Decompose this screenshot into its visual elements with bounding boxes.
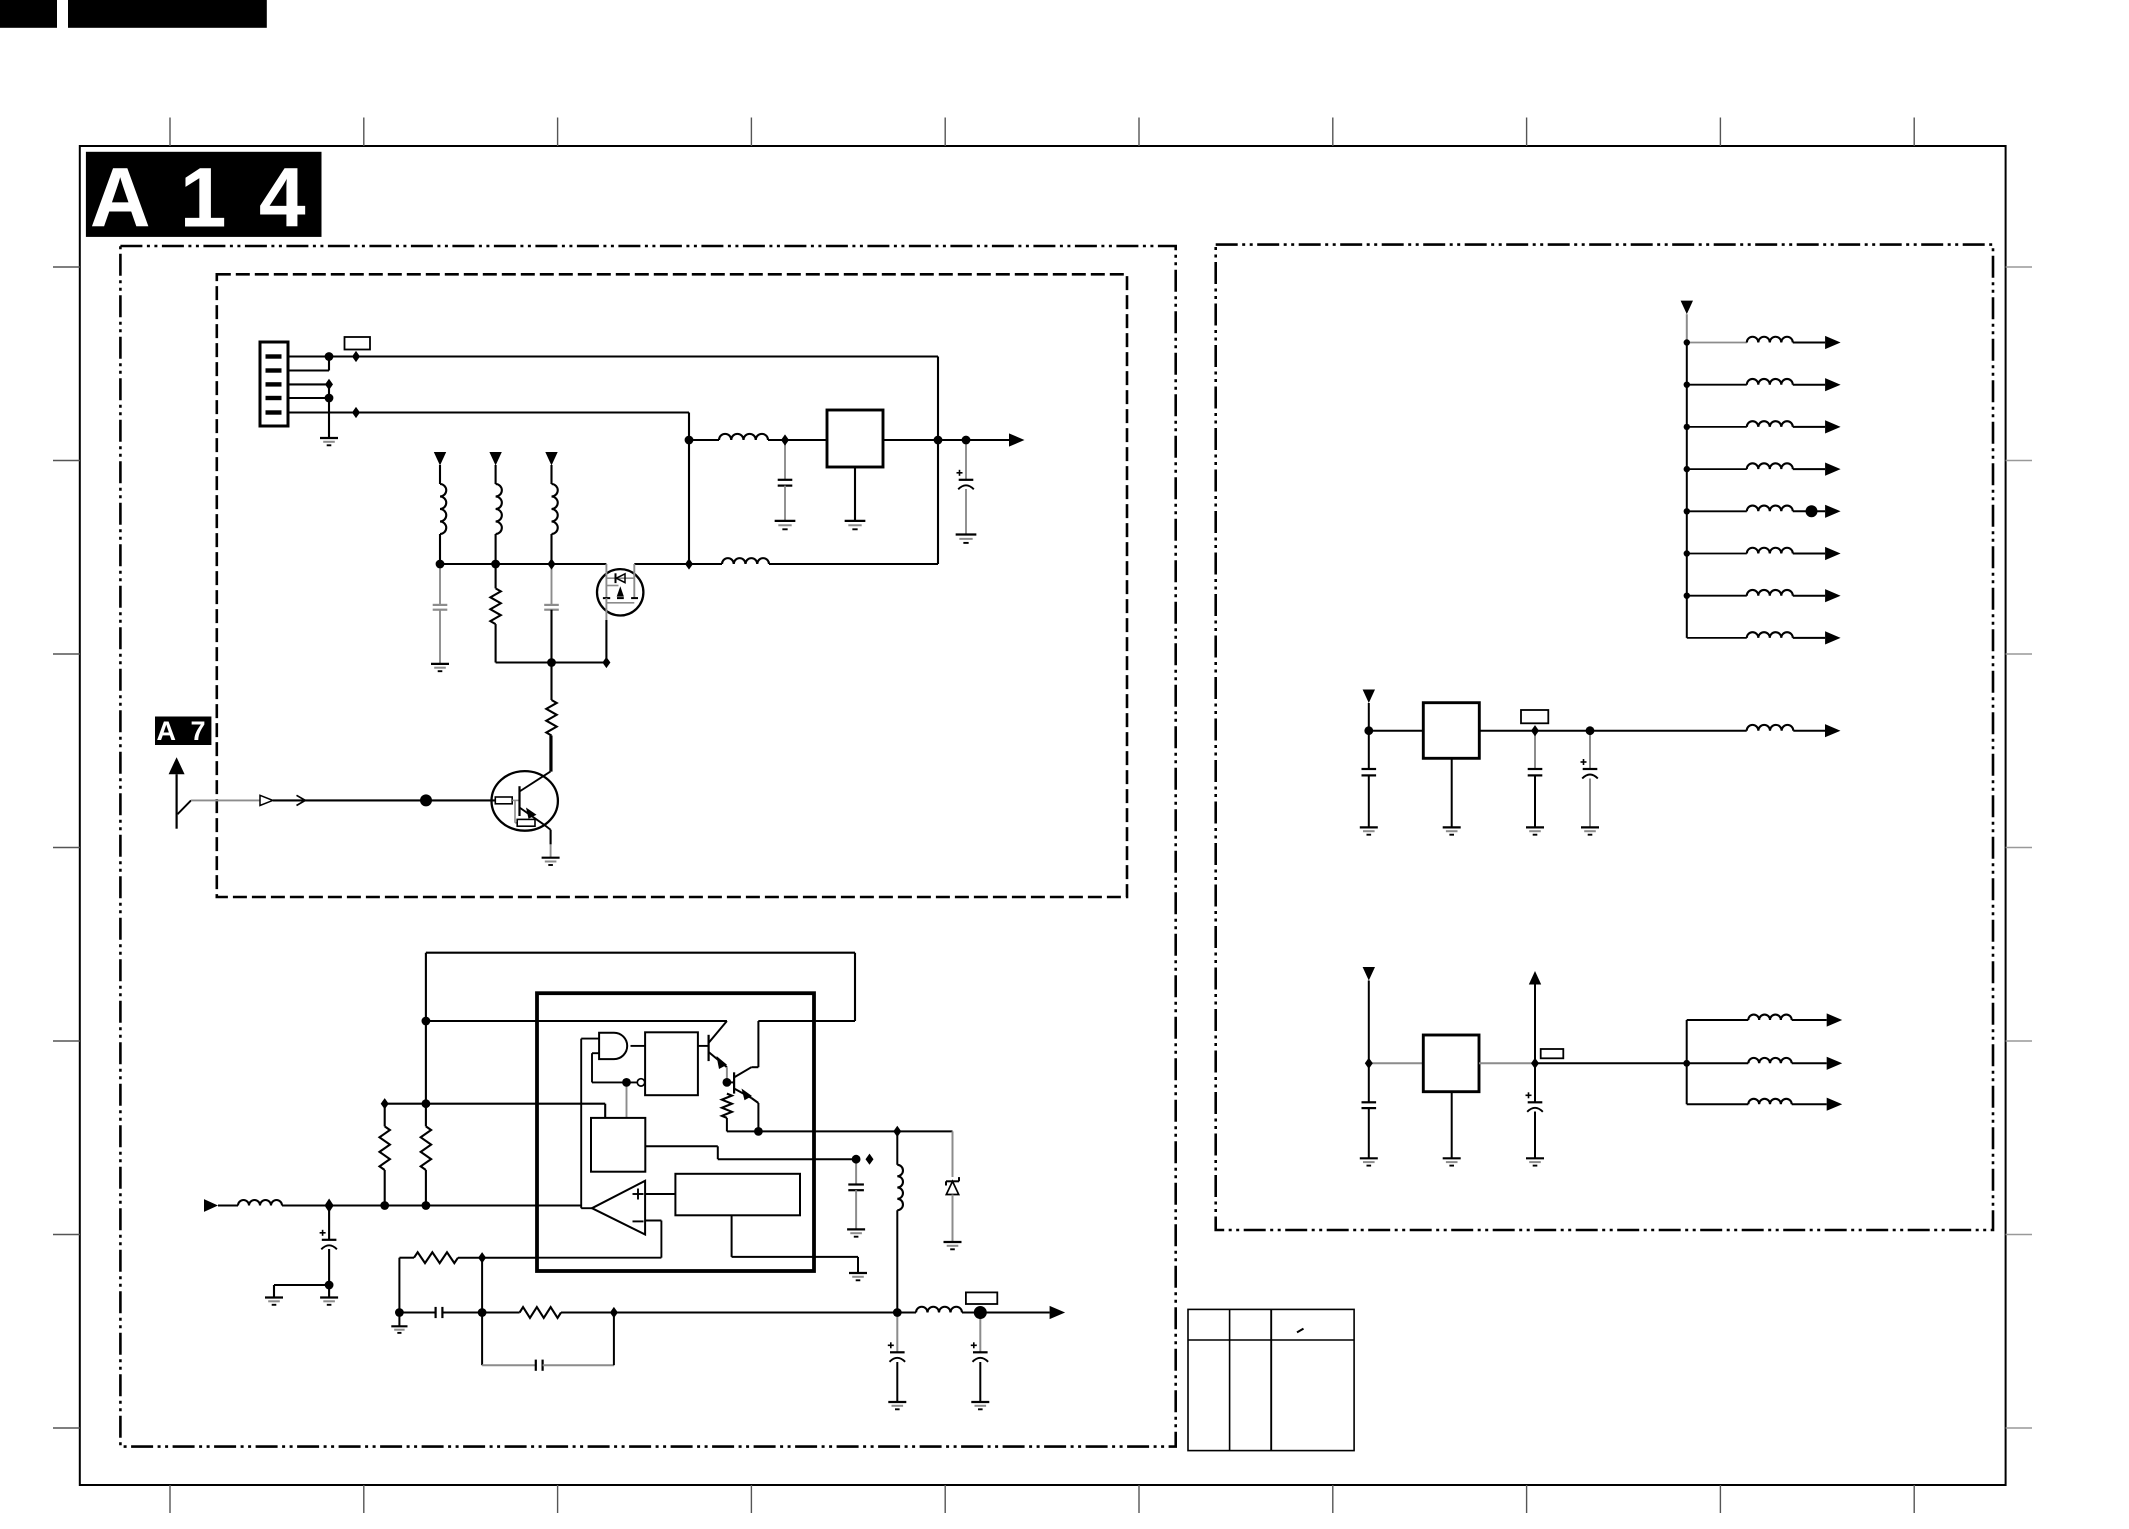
- capacitor C10 polarized: [971, 1342, 988, 1362]
- junction dot fb mid: [478, 1308, 487, 1317]
- wire AND in1: [581, 1038, 599, 1040]
- inductor L13 branch: [1684, 547, 1841, 560]
- diamond node pin3: [325, 379, 333, 390]
- junction dot regulator input: [685, 436, 694, 445]
- arrow supply down: [1681, 301, 1693, 315]
- wire U2c out: [645, 1146, 856, 1159]
- wire inverter net: [592, 1053, 637, 1082]
- diamond node U4 in: [1365, 1058, 1373, 1069]
- slash A7: [178, 800, 192, 814]
- junction dot bus b: [491, 560, 500, 569]
- op-amp U2d: [592, 1181, 645, 1235]
- wire return left: [689, 563, 722, 565]
- junction dot output L: [893, 1308, 902, 1317]
- junction dot R4 tap: [422, 1099, 431, 1108]
- junction dot base node: [420, 794, 432, 806]
- ground feedback: [391, 1326, 407, 1333]
- wire U4 in drop: [1368, 981, 1370, 1064]
- wire MOSFET to diamond: [634, 563, 689, 565]
- right block dash-dot border: [1216, 245, 1993, 1230]
- wire output line: [614, 1312, 916, 1314]
- wire R1 top: [495, 564, 497, 588]
- inductor L3: [440, 484, 446, 534]
- ground C2: [956, 535, 977, 543]
- svg-text:A 7: A 7: [156, 716, 209, 746]
- diamond node fb out: [610, 1307, 618, 1318]
- inductor L7: [897, 1165, 903, 1210]
- wire rail out: [758, 1020, 855, 1022]
- diamond node R3 top: [381, 1098, 389, 1109]
- wire L16 out: [1793, 730, 1825, 732]
- arrow U3 input down: [1363, 690, 1375, 704]
- wire fb gnd stub: [398, 1313, 400, 1327]
- junction dot pin4: [325, 394, 334, 403]
- regulator U3: [1423, 703, 1479, 759]
- wire U3 output: [1479, 730, 1746, 732]
- svg-text:A 1 4: A 1 4: [90, 151, 310, 245]
- arrow output main: [1050, 1306, 1066, 1319]
- wire C15 gnd: [1534, 1112, 1536, 1159]
- wire C9 gnd: [896, 1362, 898, 1402]
- wire gnd link down: [273, 1285, 275, 1298]
- wire C8 right: [543, 1313, 614, 1366]
- junction dot R4 bottom: [422, 1201, 431, 1210]
- ground input left: [265, 1298, 283, 1305]
- arrow A7 up: [169, 757, 185, 829]
- IC U2 box: [537, 993, 814, 1271]
- wire C2 to ground: [965, 489, 967, 535]
- wire R3 to input: [384, 1170, 386, 1206]
- junction dot fb left: [395, 1308, 404, 1317]
- revision table: [1188, 1309, 1354, 1450]
- wire R7 right: [561, 1312, 614, 1314]
- junction dot U4 branches: [1683, 1060, 1690, 1067]
- transistor Q3 internal: [709, 1021, 727, 1069]
- wire C6 ground: [855, 1190, 857, 1229]
- left block dash-dot border: [120, 246, 1175, 1447]
- label box U3: [1521, 710, 1548, 723]
- inductor L11 branch: [1684, 463, 1841, 476]
- junction dot bottom bus: [547, 658, 556, 667]
- wire C13 gnd: [1589, 779, 1591, 828]
- diamond node pin1: [352, 351, 360, 362]
- capacitor C9 polarized: [888, 1342, 905, 1362]
- capacitor C11: [1362, 769, 1377, 775]
- wire AND vertical: [581, 1039, 592, 1209]
- ground C5: [320, 1298, 338, 1305]
- wire C3 lead: [439, 564, 441, 605]
- wire pin4: [288, 397, 329, 399]
- wire U4 input: [1369, 1062, 1424, 1064]
- wire U2b out: [698, 1045, 709, 1047]
- wire R1 bottom: [495, 624, 497, 662]
- wire drive right: [897, 1130, 952, 1132]
- wire fb drop: [481, 1258, 483, 1313]
- border frame: [80, 146, 2006, 1485]
- wire C5 down: [328, 1249, 330, 1298]
- ground C6: [847, 1229, 865, 1236]
- ground C13: [1581, 827, 1599, 834]
- arrow input main: [204, 1199, 218, 1212]
- wire C4 lead: [551, 564, 553, 605]
- capacitor C1: [778, 480, 793, 486]
- wire sense line: [385, 1104, 606, 1118]
- ground C3: [431, 664, 449, 671]
- ground U1: [845, 521, 866, 529]
- wire right bus vertical: [937, 357, 939, 565]
- junction dot R3 bottom: [380, 1201, 389, 1210]
- wire U3 gnd: [1451, 758, 1453, 827]
- wire C8 loop: [482, 1313, 536, 1366]
- wire R4 chain: [425, 953, 427, 1127]
- inductor L5: [552, 484, 558, 534]
- wire top loop: [426, 953, 855, 1021]
- wire zener drop: [952, 1131, 954, 1177]
- wire R3 top: [384, 1104, 386, 1127]
- inductor L12 branch: [1684, 505, 1841, 518]
- inverter bubble: [637, 1079, 644, 1086]
- capacitor C3: [433, 605, 448, 610]
- wire U3 in stub: [1368, 703, 1370, 731]
- arrow input ANT1: [434, 452, 446, 466]
- inductor L5: [238, 1200, 282, 1206]
- capacitor C13 polarized: [1581, 759, 1598, 779]
- wire buffer to base: [273, 799, 495, 801]
- wire op-amp plus: [645, 1193, 675, 1195]
- wire C14 lead: [1368, 1063, 1370, 1102]
- inductor L4: [496, 484, 502, 534]
- arrow U4 aux up: [1529, 971, 1541, 985]
- wire L3 to bus: [439, 534, 441, 564]
- junction dot output big: [974, 1306, 987, 1319]
- wire Q2 source down: [605, 620, 607, 663]
- wire supply stub: [1686, 314, 1688, 342]
- wire U3 input: [1369, 730, 1424, 732]
- capacitor C12: [1528, 769, 1543, 775]
- capacitor C7: [436, 1307, 443, 1318]
- wire U1 output: [883, 439, 1009, 441]
- transistor Q1: [492, 771, 558, 831]
- transistor Q4 internal: [727, 1067, 752, 1100]
- regulator U4: [1423, 1035, 1479, 1092]
- wire C2 lead: [965, 440, 967, 480]
- junction dot Q3-Q4: [723, 1078, 732, 1087]
- inductor L17 branch: [1687, 1013, 1843, 1026]
- ground C9: [888, 1402, 906, 1409]
- right edge tick marks: [2006, 267, 2032, 1428]
- wire fb bottom left: [399, 1312, 435, 1314]
- junction dot U3 in: [1364, 726, 1373, 735]
- wire C12 gnd: [1534, 775, 1536, 827]
- wire C3 to ground: [439, 610, 441, 664]
- wire branch vertical: [1686, 1020, 1688, 1104]
- wire C4 down: [550, 610, 552, 700]
- diamond node drive: [893, 1126, 901, 1137]
- inner dashed border: [217, 274, 1127, 897]
- junction dot feed: [422, 1017, 431, 1026]
- arrow U4 input down: [1363, 967, 1375, 981]
- wire L6 out: [962, 1312, 1050, 1314]
- sheet label A14: [86, 151, 322, 245]
- wire ANT3 stub: [550, 465, 552, 484]
- wire C1 to ground: [784, 486, 786, 521]
- arrow input ANT2: [489, 452, 501, 466]
- capacitor C5 polarized: [320, 1230, 337, 1250]
- wire Q3 emitter: [726, 1067, 728, 1078]
- junction dot U3 out: [1586, 726, 1595, 735]
- wire input to L5: [218, 1204, 238, 1206]
- chevron arrow: [297, 795, 306, 805]
- inductor L8 branch: [1684, 336, 1841, 349]
- wire C15 lead: [1534, 1063, 1536, 1102]
- wire AND out: [631, 1045, 646, 1047]
- junction dot U1 out a: [934, 436, 943, 445]
- ground connector: [320, 438, 338, 445]
- AND gate U2a: [599, 1033, 627, 1059]
- wire bottom bus: [496, 661, 607, 663]
- ground Q1 emitter: [542, 858, 560, 865]
- buffer arrow symbol: [260, 795, 273, 805]
- capacitor C15 polarized: [1526, 1092, 1543, 1112]
- wire C7 right: [442, 1312, 519, 1314]
- ground C14: [1360, 1158, 1378, 1165]
- wire C11 lead: [1368, 731, 1370, 769]
- wire C9 lead: [896, 1313, 898, 1353]
- ground C1: [775, 521, 796, 529]
- resistor R7: [520, 1307, 561, 1318]
- capacitor C14: [1362, 1102, 1377, 1108]
- resistor R1: [490, 588, 500, 624]
- wire Q4 emitter: [751, 1098, 758, 1131]
- inductor L16: [1747, 725, 1794, 731]
- wire C11 gnd: [1368, 775, 1370, 827]
- wire connector ground stub: [328, 384, 330, 438]
- wire C13 lead: [1589, 731, 1591, 769]
- inductor L18 branch: [1687, 1057, 1843, 1070]
- arrow U3 out: [1825, 724, 1841, 737]
- capacitor C4: [544, 605, 559, 610]
- junction dot sense out: [852, 1155, 861, 1164]
- control block U2c: [591, 1118, 645, 1172]
- label box output: [966, 1292, 997, 1304]
- wire L5 to bus: [550, 534, 552, 564]
- diamond node pin5: [352, 407, 360, 418]
- wire L2 to bus: [769, 563, 938, 565]
- ground zener: [944, 1242, 962, 1249]
- wire Q4 collector: [751, 1021, 758, 1067]
- wire C5 lead: [328, 1206, 330, 1240]
- wire ANT2 stub: [495, 465, 497, 484]
- wire U4 gnd: [1451, 1092, 1453, 1159]
- ground U4: [1443, 1158, 1461, 1165]
- wire internal rail: [537, 1020, 727, 1022]
- logic block U2b: [645, 1032, 698, 1095]
- wire R5 bottom: [727, 1118, 759, 1132]
- left edge tick marks: [53, 267, 80, 1428]
- wire pin1: [288, 355, 938, 357]
- wire C10 lead: [979, 1313, 981, 1353]
- wire zener gnd: [952, 1195, 954, 1243]
- transistor Q2 MOSFET: [597, 564, 643, 620]
- wire U4 aux: [1534, 985, 1536, 1064]
- wire fb from diamond: [482, 1257, 537, 1259]
- wire Q1 collector: [549, 736, 551, 772]
- wire R6 drop: [398, 1258, 400, 1313]
- header bar 1: [0, 0, 57, 28]
- ground U2e: [849, 1273, 867, 1280]
- wire R6 left: [399, 1257, 414, 1259]
- wire U4 output: [1479, 1062, 1535, 1064]
- arrow output VCC1: [1009, 433, 1025, 446]
- label box U4: [1541, 1049, 1564, 1058]
- wire gnd link: [274, 1284, 329, 1286]
- header bar 2: [68, 0, 267, 28]
- bottom edge tick marks: [170, 1485, 1914, 1513]
- ground C10: [971, 1402, 989, 1409]
- inductor L10 branch: [1684, 420, 1841, 433]
- capacitor C2 polarized: [957, 470, 974, 490]
- wire ctrl drop: [626, 1082, 628, 1118]
- wire A7 to buffer: [191, 799, 260, 801]
- wire R4 to input: [425, 1170, 427, 1206]
- top edge tick marks: [170, 118, 1914, 147]
- wire L7 top: [896, 1131, 898, 1164]
- inductor L9 branch: [1684, 378, 1841, 391]
- wire Q1 emitter: [550, 830, 552, 858]
- wire ANT1 stub: [439, 465, 441, 484]
- junction dot bus a: [436, 560, 445, 569]
- inductor L2: [722, 558, 769, 564]
- junction dot pin1 bus: [325, 352, 334, 361]
- wire to L1: [689, 439, 719, 441]
- zener diode D1: [946, 1177, 959, 1194]
- inductor L15 branch: [1687, 631, 1841, 644]
- connector CN1: [260, 342, 288, 426]
- wire R6 right: [458, 1257, 482, 1259]
- inductor L1: [719, 434, 768, 440]
- wire AND in2: [592, 1052, 599, 1054]
- diamond node U3 out: [1531, 725, 1539, 736]
- wire pin3: [288, 383, 329, 385]
- junction dot inverter: [622, 1078, 631, 1087]
- wire C10 gnd: [979, 1362, 981, 1402]
- capacitor C6: [848, 1185, 864, 1191]
- resistor R5 internal: [722, 1094, 732, 1118]
- wire C1 lead: [784, 440, 786, 480]
- wire branch bus: [1686, 343, 1688, 638]
- inductor L14 branch: [1684, 589, 1841, 602]
- wire op-amp minus: [537, 1221, 661, 1258]
- wire U1 ground lead: [854, 467, 856, 521]
- diamond node L1 out: [781, 434, 789, 445]
- wire L1 to U1: [768, 439, 827, 441]
- wire L7 bottom: [896, 1210, 898, 1312]
- inductor L19 branch: [1687, 1098, 1843, 1111]
- diamond node MOSFET source: [602, 657, 610, 668]
- wire pin5 vertical: [688, 413, 690, 565]
- diamond node input: [325, 1199, 334, 1213]
- wire antenna bus: [440, 563, 606, 565]
- resistor R3: [380, 1126, 390, 1170]
- ground U3: [1443, 827, 1461, 834]
- wire collector feed: [426, 1020, 727, 1022]
- label box near connector: [345, 337, 371, 350]
- junction dot C5 gnd: [325, 1281, 334, 1290]
- capacitor C8: [536, 1360, 543, 1371]
- inductor L6: [916, 1307, 962, 1313]
- wire U2e out: [732, 1215, 858, 1273]
- wire input line: [282, 1204, 581, 1206]
- wire C6 lead: [855, 1159, 857, 1184]
- wire C14 gnd: [1368, 1108, 1370, 1158]
- wire pin5: [288, 411, 689, 413]
- ground C11: [1360, 827, 1378, 834]
- diamond node U4 out: [1531, 1058, 1539, 1069]
- resistor R4: [421, 1126, 431, 1170]
- resistor R2: [546, 700, 556, 736]
- regulator U1: [827, 410, 883, 467]
- wire drive out: [758, 1130, 897, 1132]
- junction dot U1 out b: [962, 436, 971, 445]
- wire R2 to Q1: [550, 736, 552, 772]
- resistor R6: [414, 1252, 458, 1263]
- ground C12: [1526, 827, 1544, 834]
- wire C12 lead: [1534, 731, 1536, 769]
- junction dot emitter out: [754, 1127, 763, 1136]
- diamond node feedback: [478, 1252, 486, 1263]
- diamond node sense: [866, 1154, 874, 1165]
- diamond node bus c: [548, 558, 556, 569]
- wire L4 to bus: [495, 534, 497, 564]
- wire U4 out line: [1535, 1062, 1687, 1064]
- off-page flag A7: [155, 716, 211, 746]
- arrow input ANT3: [545, 452, 557, 466]
- diamond node return: [685, 558, 693, 569]
- wire pin1-pin2 link: [328, 357, 330, 371]
- pwm block U2e: [675, 1174, 800, 1216]
- ground C15: [1526, 1158, 1544, 1165]
- wire pin2: [288, 369, 329, 371]
